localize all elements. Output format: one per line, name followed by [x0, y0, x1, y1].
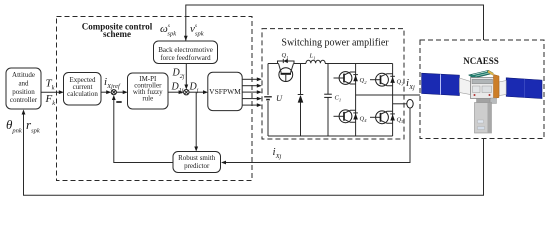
svg-text:calculation: calculation: [67, 90, 98, 98]
svg-text:NCAESS: NCAESS: [463, 56, 499, 66]
satellite left solar panel: [422, 73, 460, 95]
wire: IM-PI to summing junction 2, label D_1j: [168, 91, 180, 93]
switching power amplifier dashed box: [262, 29, 404, 139]
H-bridge left leg wire: [355, 64, 357, 137]
antiparallel diode of Q1: [278, 61, 295, 64]
IM-PI controller with fuzzy rule block: [128, 73, 169, 109]
satellite boom: [477, 99, 491, 103]
wire: bridge output to NCAESS: [356, 94, 420, 96]
back electromotive force feedforward block: [154, 41, 218, 64]
transistor Q3: [370, 73, 404, 86]
robust smith predictor block: [173, 152, 221, 173]
svg-text:iXj: iXj: [406, 77, 415, 91]
minus sign at junction 1: [116, 101, 121, 103]
wire: predictor output to junction 1: [114, 99, 173, 163]
summing junction 1: [111, 90, 116, 95]
wire: bridge right leg to current sensor: [393, 103, 407, 105]
transistor Q2: [334, 72, 368, 85]
svg-text:θpnk: θpnk: [6, 117, 22, 135]
svg-text:position: position: [12, 88, 35, 96]
svg-text:iXj: iXj: [273, 146, 282, 160]
transistor Q5: [370, 111, 404, 124]
svg-text:and: and: [18, 79, 29, 87]
svg-text:L1: L1: [309, 53, 316, 61]
svg-text:rspk: rspk: [26, 117, 40, 135]
svg-text:ωsspk: ωsspk: [160, 23, 176, 38]
svg-text:D2j: D2j: [172, 68, 185, 81]
attitude and position controller U1: [6, 68, 41, 109]
svg-text:Tk: Tk: [46, 78, 55, 92]
wire: top feedforward line from satellite: [186, 5, 484, 41]
svg-text:Q2: Q2: [360, 77, 368, 85]
VSFPWM block: [208, 72, 242, 110]
capacitor C1: [327, 64, 329, 95]
svg-text:scheme: scheme: [103, 29, 131, 39]
battery source symbol: [264, 96, 272, 98]
svg-text:Attitude: Attitude: [12, 71, 35, 79]
satellite orange side panel: [494, 75, 500, 99]
wire: current feedback to robust smith predictor: [225, 108, 410, 162]
VSFPWM gate drive arrows (5): [242, 77, 262, 107]
wire: expected current calc to summing junction 1: [101, 91, 107, 93]
svg-text:force feedforward: force feedforward: [160, 54, 211, 62]
summing junction 2: [184, 90, 189, 95]
svg-text:predictor: predictor: [184, 162, 210, 170]
bottom rail: [268, 135, 393, 137]
wire: branch down to robust smith predictor: [195, 92, 197, 147]
svg-text:rule: rule: [142, 95, 153, 103]
satellite body: [471, 78, 495, 99]
wire: feedback from satellite to controller (bottom): [24, 111, 484, 196]
svg-text:Q5: Q5: [397, 116, 405, 124]
satellite right strut: [499, 81, 506, 96]
satellite right solar panel: [506, 78, 542, 99]
inductor L1: [306, 60, 325, 63]
satellite lower stub: [491, 98, 497, 104]
svg-text:νsspk: νsspk: [190, 23, 204, 38]
svg-text:C1: C1: [335, 95, 342, 103]
satellite left strut: [459, 78, 470, 95]
freewheel diode D: [300, 64, 302, 95]
svg-text:iXjref: iXjref: [104, 76, 121, 90]
transistor Q1: [279, 68, 293, 82]
svg-text:Switching power amplifier: Switching power amplifier: [281, 38, 389, 49]
H-bridge right leg wire: [392, 64, 394, 137]
top rail: [268, 63, 279, 65]
svg-text:Dj: Dj: [189, 82, 199, 95]
NCAESS dashed box: [420, 40, 544, 139]
svg-text:Fk: Fk: [45, 93, 56, 107]
satellite body top slab: [469, 70, 494, 78]
svg-text:Q1: Q1: [282, 52, 289, 60]
current sensor: [407, 100, 413, 109]
svg-text:Back electromotive: Back electromotive: [158, 46, 213, 54]
wire: junction 2 to VSFPWM, label D_j: [189, 91, 204, 93]
expected current calculation block: [64, 73, 102, 106]
source U left wire: [267, 64, 269, 96]
svg-text:U: U: [276, 93, 283, 103]
svg-text:D1j: D1j: [171, 82, 184, 95]
svg-text:controller: controller: [10, 96, 38, 104]
transistor Q4: [334, 110, 368, 123]
wire: controller to expected current calculation: [41, 91, 60, 93]
svg-text:Q4: Q4: [360, 115, 368, 123]
svg-text:VSFPWM: VSFPWM: [209, 87, 241, 96]
svg-text:Robust smith: Robust smith: [178, 154, 216, 162]
composite control scheme dashed box: [57, 17, 253, 181]
wire: junction 1 to IM-PI controller: [116, 91, 123, 93]
wire: back-EMF feedforward down to junction 2, label D_2j: [185, 64, 187, 86]
svg-text:Q3: Q3: [397, 79, 405, 87]
